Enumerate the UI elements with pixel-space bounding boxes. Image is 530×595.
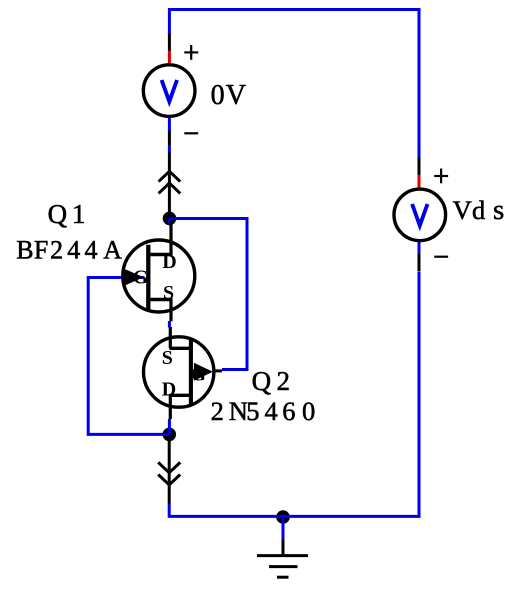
svg-text:Q1: Q1 (48, 199, 86, 229)
svg-text:BF244A: BF244A (16, 236, 122, 265)
svg-text:Vd: Vd (453, 195, 486, 225)
svg-text:S: S (163, 282, 174, 304)
svg-text:0V: 0V (211, 80, 246, 111)
svg-text:S: S (162, 347, 173, 369)
svg-text:D: D (162, 379, 176, 401)
svg-text:Q2: Q2 (252, 366, 290, 396)
svg-text:D: D (162, 251, 176, 273)
svg-text:s: s (493, 194, 504, 226)
